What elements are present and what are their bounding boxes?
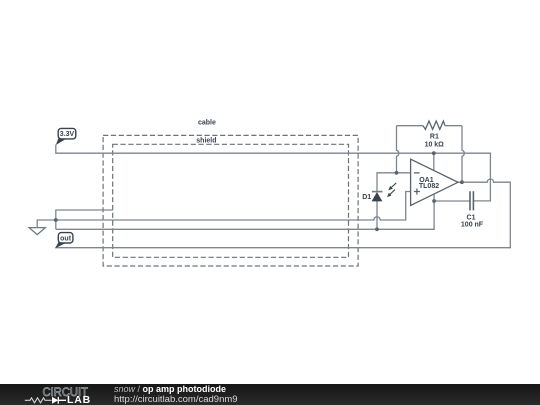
light arrow upper [391, 183, 396, 188]
junction output / feedback [460, 180, 464, 184]
svg-text:shield: shield [196, 137, 216, 144]
photodiode D1 [372, 191, 383, 193]
svg-text:100 nF: 100 nF [461, 222, 484, 229]
wire feedback left vertical with hop [397, 126, 399, 173]
svg-text:cable: cable [198, 119, 216, 126]
svg-text:10 kΩ: 10 kΩ [425, 141, 445, 148]
capacitor C1 [470, 191, 473, 210]
wire 3.3V rail [56, 145, 491, 201]
svg-text:D1: D1 [362, 194, 371, 201]
wire feedback top right [445, 125, 462, 127]
svg-text:http://circuitlab.com/cad9nm9: http://circuitlab.com/cad9nm9 [114, 394, 238, 405]
svg-text:3.3V: 3.3V [60, 131, 75, 138]
wire V- rail [56, 201, 434, 229]
svg-text:LAB: LAB [67, 394, 91, 405]
resistor R1 [423, 121, 445, 129]
svg-text:R1: R1 [430, 134, 439, 141]
logo squiggle resistor + diode [25, 398, 52, 403]
junction ground bus [54, 218, 58, 222]
op-amp OA1 [411, 159, 458, 205]
junction inverting input / feedback [395, 171, 399, 175]
wire diode bottom [376, 201, 378, 229]
svg-text:out: out [60, 235, 72, 242]
junction diode anode / V- rail [375, 227, 379, 231]
light arrow lower [390, 190, 395, 195]
shield dashed box [113, 144, 349, 257]
wire output to out label [55, 179, 510, 248]
wire diode top to - input [377, 173, 411, 192]
svg-text:snow / op amp photodiode: snow / op amp photodiode [114, 384, 226, 394]
wire feedback right vertical with hop [462, 126, 464, 183]
wire op-amp V- pin to C1 [434, 194, 470, 201]
cable dashed box [103, 135, 358, 266]
junction V+ rail / op-amp supply [432, 151, 436, 155]
node out label [55, 242, 66, 248]
footer bar [0, 384, 540, 405]
wire op-amp V+ pin [433, 153, 435, 170]
junction V- pin / C1 [432, 199, 436, 203]
svg-text:TL082: TL082 [419, 183, 439, 190]
wire ground to + input [37, 192, 410, 228]
wire feedback top left [397, 125, 424, 127]
wire shield to ground bus [56, 210, 113, 229]
ground [29, 228, 45, 235]
node 3.3V label [56, 138, 66, 145]
svg-text:C1: C1 [467, 215, 476, 222]
